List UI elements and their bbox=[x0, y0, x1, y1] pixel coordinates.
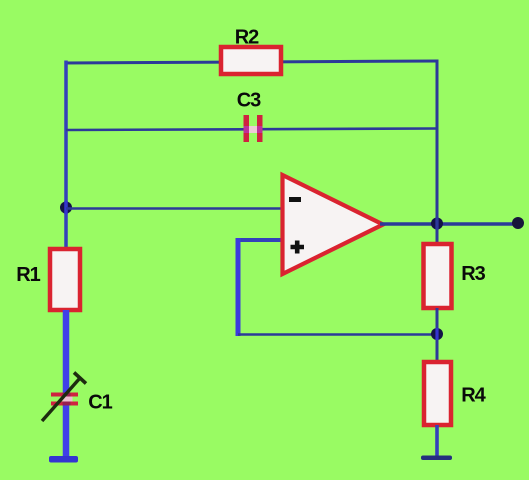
wire feedback horizontal to R3/R4 node bbox=[238, 333, 437, 336]
wire right vertical from top corner to R3 bbox=[436, 61, 439, 247]
wire feedback vertical bbox=[236, 238, 241, 336]
wire C3 horizontal branch (right of C3) bbox=[262, 127, 437, 130]
resistor R1 bbox=[50, 249, 80, 310]
wire below R4 to ground bbox=[435, 425, 439, 458]
svg-text:C3: C3 bbox=[237, 90, 261, 112]
wire output bbox=[380, 222, 516, 225]
wire non-inverting input stub bbox=[236, 238, 283, 242]
node output junction dot bbox=[431, 217, 443, 230]
node A junction dot (inverting net) bbox=[60, 201, 72, 214]
resistor R3 bbox=[424, 244, 452, 308]
resistor R4 bbox=[424, 362, 451, 425]
svg-text:R1: R1 bbox=[16, 264, 40, 286]
wire C3 horizontal branch (left of C3) bbox=[66, 128, 244, 131]
capacitor C3 bbox=[244, 115, 263, 142]
wire between R3 and R4 bbox=[436, 308, 439, 364]
capacitor C1 (variable) bbox=[42, 373, 86, 422]
op-amp U1 bbox=[283, 175, 384, 274]
ground right bbox=[421, 456, 452, 461]
output terminal dot bbox=[512, 217, 524, 229]
svg-text:C1: C1 bbox=[88, 392, 112, 414]
node junction dot between R3 and R4 bbox=[431, 328, 443, 340]
wire left vertical from top corner down to R1 bbox=[64, 61, 68, 252]
wire top horizontal from left corner to right corner bbox=[65, 61, 439, 63]
resistor R2 bbox=[221, 47, 281, 74]
svg-text:R3: R3 bbox=[461, 263, 485, 285]
wire inverting input bbox=[66, 207, 282, 210]
wire left vertical below R1 to C1 bbox=[63, 310, 70, 394]
ground left bbox=[49, 456, 78, 463]
svg-text:R4: R4 bbox=[461, 385, 486, 407]
wire left vertical below C1 to ground bbox=[63, 405, 70, 459]
svg-text:R2: R2 bbox=[235, 27, 259, 49]
